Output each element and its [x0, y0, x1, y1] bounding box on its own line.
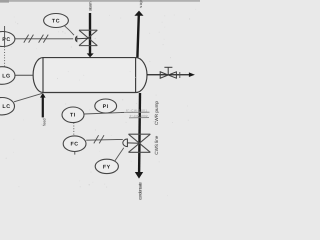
vessel right tangent seam: [135, 58, 137, 93]
arrow down off page: [135, 172, 143, 179]
instrument bubble TC (top): [44, 14, 69, 28]
arrow into vessel bottom nozzle: [40, 93, 46, 98]
pipe: steam inlet line at top: [89, 13, 91, 55]
instrument bubble LC (left bottom, cut): [0, 98, 15, 115]
CV-1 actuator stem: [77, 37, 88, 40]
svg-text:CWR pump: CWR pump: [154, 101, 159, 125]
stub line above/through PC: [4, 26, 6, 46]
svg-text:steam: steam: [88, 1, 93, 11]
vessel left tangent seam: [42, 58, 44, 93]
svg-text:feed: feed: [42, 119, 46, 127]
leader FY to CV-2: [115, 148, 124, 161]
top page edge: [0, 0, 200, 2]
CV-1 diaphragm actuator: [75, 36, 76, 41]
pipe: bottoms outlet line down: [138, 93, 141, 173]
svg-text:6"-CW-1001: 6"-CW-1001: [126, 109, 147, 113]
svg-text:3"-CW-1002: 3"-CW-1002: [130, 114, 148, 118]
line number label row 2 across pipe: [129, 117, 149, 119]
signal slashes: [94, 135, 99, 143]
instrument bubble PC (left top, cut by page edge): [0, 32, 15, 47]
leader TI to line tap: [84, 112, 124, 114]
instrument bubble FC: [63, 136, 86, 152]
line number label row 1 across pipe: [121, 111, 150, 113]
control valve CV-2 body (on vertical line): [129, 134, 151, 152]
leader LC to feed nozzle: [14, 93, 42, 101]
svg-text:TC: TC: [52, 18, 60, 24]
svg-text:PI: PI: [103, 104, 109, 110]
svg-text:vap: vap: [138, 0, 143, 8]
pipe: liquid outlet line to right: [147, 74, 190, 76]
signal slashes group 1: [24, 35, 29, 43]
instrument bubble TI: [62, 107, 84, 123]
hand valve stem and handle: [167, 67, 169, 75]
control valve CV-1 body (on vertical line): [79, 30, 97, 45]
instrument bubble PI: [95, 99, 117, 113]
pneumatic signal line PC to CV-1: [15, 38, 73, 40]
svg-text:condensate: condensate: [138, 181, 143, 200]
CV-2 actuator stem: [127, 142, 139, 144]
arrow into vessel top nozzle: [87, 53, 94, 57]
svg-text:TI: TI: [70, 113, 76, 119]
hand valve body (bowtie): [160, 72, 176, 78]
stub below FC bubble: [74, 152, 76, 155]
pneumatic signal FC to CV-2: [86, 138, 123, 141]
flange tick downstream of hand valve: [179, 72, 181, 78]
instrument bubble LG (left middle, cut): [0, 67, 15, 85]
svg-text:LC: LC: [2, 104, 10, 110]
dotted signal PC to LG: [4, 47, 6, 67]
arrow up off page: [134, 11, 143, 16]
pipe: vapor outlet line top right: [137, 15, 138, 57]
dotted signal TI to FC: [73, 123, 75, 136]
svg-text:PC: PC: [2, 37, 11, 43]
leader TC bubble to CV-1 actuator: [65, 26, 75, 35]
svg-text:CWS line: CWS line: [154, 135, 159, 154]
svg-text:FY: FY: [103, 164, 111, 170]
CV-2 diaphragm actuator: [123, 139, 128, 147]
scan speckle noise: [6, 9, 197, 197]
vessel V-1 horizontal drum body: [33, 58, 147, 93]
svg-text:LG: LG: [2, 73, 11, 79]
arrow off page right: [189, 72, 195, 77]
tap line LG to vessel left head: [15, 74, 33, 76]
instrument bubble FY: [95, 159, 118, 173]
pipe: feed line bottom left: [42, 97, 44, 118]
svg-text:FC: FC: [70, 142, 78, 148]
signal slashes group 2: [39, 35, 44, 43]
